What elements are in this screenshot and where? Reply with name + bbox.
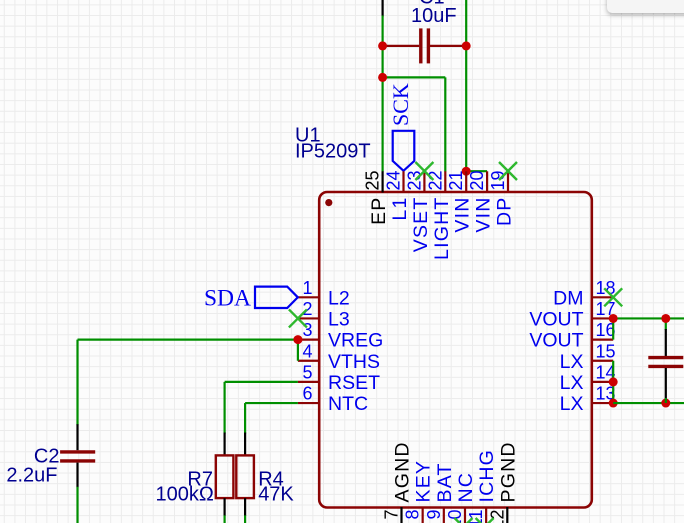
- svg-text:47K: 47K: [258, 484, 294, 506]
- pin 17 (VOUT) right: [529, 299, 615, 331]
- wire - down to C2: [76, 340, 78, 426]
- junction - C1 right / right rail: [462, 41, 471, 50]
- pin 21 (VIN) top: [446, 170, 474, 232]
- pin 14 (LX) right: [560, 362, 616, 394]
- pin 8 (KEY) bottom: [403, 460, 435, 523]
- svg-text:L1: L1: [389, 197, 411, 221]
- capacitor C1 10uF: [383, 28, 467, 63]
- svg-text:2.2uF: 2.2uF: [6, 465, 57, 487]
- pin 19 (DP) top: [488, 170, 516, 226]
- svg-text:L3: L3: [328, 308, 350, 330]
- svg-text:18: 18: [596, 278, 616, 298]
- junction - pin 13 LX: [609, 399, 618, 408]
- pin 12 (PGND) bottom: [487, 441, 519, 523]
- no-connect X on pin 19: [499, 162, 517, 180]
- wire - down to R4: [244, 403, 246, 433]
- pin 13 (LX) right: [560, 384, 616, 416]
- svg-text:15: 15: [596, 341, 616, 361]
- svg-text:6: 6: [302, 384, 312, 404]
- svg-text:RSET: RSET: [328, 372, 380, 394]
- wire - R4 bottom to edge of view: [244, 515, 246, 523]
- svg-text:20: 20: [467, 170, 487, 190]
- svg-text:NC: NC: [455, 472, 477, 503]
- svg-text:NTC: NTC: [328, 393, 368, 415]
- no-connect X on pin 11: [476, 518, 494, 523]
- svg-text:100kΩ: 100kΩ: [155, 484, 213, 506]
- resistor R4 47K (vertical): [236, 433, 254, 516]
- svg-text:9: 9: [424, 510, 444, 520]
- pin 20 (VIN) top: [467, 170, 495, 232]
- svg-text:VSET: VSET: [410, 197, 432, 253]
- wire - LX net continues off right edge: [613, 402, 684, 404]
- svg-text:DP: DP: [494, 197, 516, 227]
- svg-text:LX: LX: [560, 372, 584, 394]
- pin 7 (AGND) bottom: [382, 441, 414, 523]
- wire - branch right toward pin 22: [383, 76, 446, 78]
- wire - R7 bottom to edge of view: [224, 515, 226, 523]
- net flag SCK on pin 24: [393, 131, 415, 171]
- svg-text:SCK: SCK: [388, 83, 413, 126]
- no-connect X on pin 23: [415, 162, 433, 180]
- svg-text:5: 5: [302, 362, 312, 382]
- svg-text:VIN: VIN: [452, 197, 474, 233]
- junction - branch to pin 22: [378, 73, 387, 82]
- wire - pin 17 VOUT to the right: [613, 317, 666, 319]
- junction - C3 top on VOUT net: [661, 314, 670, 323]
- svg-text:LIGHT: LIGHT: [431, 197, 453, 260]
- svg-text:21: 21: [446, 170, 466, 190]
- svg-text:1: 1: [302, 278, 312, 298]
- svg-text:L2: L2: [328, 287, 350, 309]
- svg-text:LX: LX: [560, 393, 584, 415]
- svg-text:VOUT: VOUT: [529, 308, 583, 330]
- svg-text:AGND: AGND: [392, 441, 414, 502]
- wire - C2 bottom to edge of view: [76, 487, 78, 523]
- wire - pin 5 RSET to the left: [225, 381, 298, 383]
- svg-text:BAT: BAT: [434, 462, 456, 502]
- no-connect X on pin 2: [289, 309, 307, 327]
- junction - pin 21 top: [462, 167, 471, 176]
- wire - down to R7: [224, 382, 226, 434]
- junction - pin 3 VREG: [293, 335, 302, 344]
- svg-text:7: 7: [382, 510, 402, 520]
- pin 24 (L1) top: [384, 170, 412, 220]
- svg-text:PGND: PGND: [497, 441, 519, 502]
- junction - C1 left / left rail: [378, 41, 387, 50]
- no-connect X on pin 18 DM: [604, 288, 622, 306]
- pin 4 (VTHS) left: [298, 341, 380, 373]
- no-connect X on pin 10: [455, 518, 473, 523]
- wire - jumper from pin 21 to pin 20 (VIN): [466, 170, 487, 172]
- resistor R7 100kOhm (vertical): [216, 433, 234, 516]
- junction - pin 14 LX: [609, 377, 618, 386]
- svg-text:10uF: 10uF: [411, 5, 457, 27]
- wire - left vertical net from top to pin 25: [382, 16, 384, 172]
- pin 5 (RSET) left: [298, 362, 380, 394]
- wire - LX pins 15-14-13 tie: [612, 361, 614, 403]
- U1 pin-1 indicator dot: [325, 199, 332, 206]
- svg-text:8: 8: [403, 510, 423, 520]
- svg-text:IP5209T: IP5209T: [295, 141, 371, 163]
- svg-text:EP: EP: [368, 197, 390, 225]
- svg-text:4: 4: [302, 341, 312, 361]
- svg-text:ICHG: ICHG: [476, 449, 498, 503]
- capacitor C3 (vertical, right side): [648, 318, 683, 403]
- wire - right vertical net from top to pin 21 (VIN): [465, 0, 467, 171]
- pin 2 (L3) left: [298, 299, 350, 331]
- pin 15 (LX) right: [560, 341, 616, 373]
- svg-text:2: 2: [302, 299, 312, 319]
- wire - pin 3 down to pin 4 VTHS: [297, 340, 299, 361]
- svg-text:LX: LX: [560, 351, 584, 373]
- svg-text:VREG: VREG: [328, 330, 383, 352]
- svg-text:25: 25: [363, 170, 383, 190]
- svg-text:DM: DM: [553, 287, 583, 309]
- pin 18 (DM) right: [553, 278, 615, 310]
- wire - pin 3 VREG to the left: [78, 339, 298, 341]
- pin 9 (BAT) bottom: [424, 462, 456, 523]
- svg-text:VOUT: VOUT: [529, 330, 583, 352]
- svg-text:SDA: SDA: [204, 286, 251, 312]
- pin 25 (EP) top: [363, 170, 391, 224]
- floating panel top-right corner: [607, 0, 684, 13]
- net flag SDA on pin 1: [255, 287, 298, 308]
- wire - pin 17 down to pin 16 VOUT: [612, 318, 614, 339]
- svg-text:24: 24: [384, 170, 404, 190]
- svg-text:VTHS: VTHS: [328, 351, 380, 373]
- svg-text:VIN: VIN: [473, 196, 495, 232]
- junction - pin 17 VOUT: [609, 314, 618, 323]
- lead of off-screen component above C1: [382, 0, 384, 17]
- wire - drop down to pin 22 (LIGHT): [444, 77, 446, 171]
- pin 10 (NC) bottom: [445, 472, 477, 523]
- svg-text:KEY: KEY: [413, 460, 435, 503]
- junction - C3 bottom on LX net: [661, 399, 670, 408]
- op-amp-style IC U1 IP5209T body: [319, 192, 592, 508]
- pin 11 (ICHG) bottom: [466, 449, 498, 523]
- capacitor C2 2.2uF (vertical): [60, 424, 95, 487]
- pin 6 (NTC) left: [298, 384, 368, 416]
- pin 3 (VREG) left: [298, 320, 383, 352]
- wire - VOUT continues off right edge: [666, 317, 684, 319]
- pin 1 (L2) left: [298, 278, 350, 310]
- pin 23 (VSET) top: [404, 170, 432, 252]
- svg-text:10: 10: [445, 510, 465, 523]
- wire - pin 6 NTC to the left: [245, 402, 298, 404]
- pin 16 (VOUT) right: [529, 320, 615, 352]
- pin 22 (LIGHT) top: [425, 170, 453, 259]
